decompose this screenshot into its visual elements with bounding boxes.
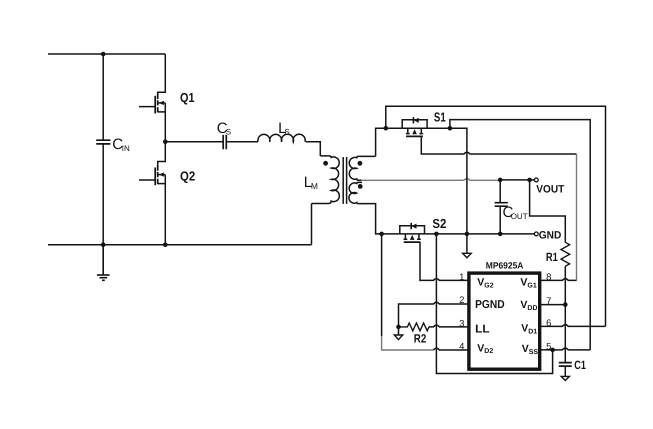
wire S1 gate riser to VG1 (gray) [576,154,578,280]
terminal GND [534,232,538,236]
wire S2 source to VSS [436,234,552,374]
wire R1 to VDD and C1 [564,266,566,362]
label LS [278,120,290,137]
capacitor CIN [96,54,110,245]
node S1 source junction [448,126,453,131]
wire top input rail [48,53,165,55]
inductor LM transformer primary winding [312,156,340,204]
wire primary bottom return [311,204,313,245]
wire ground rail through S2 [382,233,535,235]
transistor S2 [400,223,425,242]
node VDD pin 7 junction [563,302,568,307]
pin label VDD [520,299,537,312]
pin label VD1 [521,323,537,336]
node half-bridge midpoint [163,140,168,145]
terminal VOUT [534,178,538,182]
label COUT [503,204,528,221]
node top rail CIN junction [101,52,106,57]
svg-text:VOUT: VOUT [536,183,564,195]
svg-text:V: V [521,323,528,335]
svg-text:OUT: OUT [511,212,528,221]
svg-text:Q2: Q2 [180,169,195,184]
label LM [304,174,318,191]
transistor Q1 [139,54,165,142]
wire pin 6 VD1 stub [541,325,606,327]
svg-text:S2: S2 [432,216,446,231]
node S1 drain junction [384,126,389,131]
node S2 source junction [434,232,439,237]
wire pin 2 PGND to R2 node [399,302,469,327]
label CIN [112,136,130,153]
svg-text:C1: C1 [574,358,586,372]
ground secondary [463,253,472,257]
pin label VG2 [477,277,493,290]
node secondary lower polarity dot [358,184,363,189]
label CS [217,120,231,137]
node COUT top junction [498,178,503,183]
transformer secondary winding upper half [349,156,375,180]
node secondary top polarity dot [358,161,363,166]
wire S1 source to secondary ground [450,128,467,253]
svg-text:5: 5 [546,341,551,352]
svg-text:R2: R2 [414,332,427,346]
wire pin 8 VG1 stub [541,279,577,281]
svg-text:D1: D1 [528,328,537,335]
svg-text:V: V [520,277,527,289]
svg-text:LL: LL [475,323,490,335]
svg-text:S1: S1 [434,109,446,124]
wire pin 7 VDD stub [541,304,565,306]
wire S2 drain sense lower to pin 4 (gray) [382,336,434,350]
transformer T1 core [343,157,346,204]
svg-text:1: 1 [459,272,464,283]
wire bottom input rail [48,244,312,246]
svg-text:R1: R1 [546,250,558,264]
svg-text:V: V [520,299,527,311]
svg-text:PGND: PGND [475,299,505,311]
svg-text:Q1: Q1 [180,90,195,105]
svg-text:7: 7 [546,296,551,307]
svg-text:V: V [477,342,484,354]
transistor S1 [402,117,450,136]
svg-text:IN: IN [122,144,130,153]
resistor R2 [399,323,430,331]
node VSS pin 5 junction [550,348,555,353]
wire pin 4 hop to box [433,348,468,350]
node R2 PGND junction [396,325,401,330]
wire CS to LS [226,141,258,143]
wire S2 gate to pin 1 VG2 [420,242,468,280]
capacitor CS [223,135,226,149]
wire secondary top lead [376,128,403,156]
transformer secondary winding lower half [349,182,382,234]
wire pin 5 VSS stub [541,348,590,350]
svg-text:SS: SS [529,349,539,356]
svg-text:S: S [284,128,289,137]
transistor Q2 [139,142,165,245]
ground C1 [561,376,569,380]
inductor LS [258,134,305,142]
ground input rail earth [97,245,110,281]
wire LS to transformer primary [306,142,320,156]
node VOUT R1 junction [527,178,532,183]
svg-text:S: S [226,128,231,137]
capacitor COUT [495,180,508,234]
node COUT bottom junction [498,232,503,237]
svg-text:MP6925A: MP6925A [486,261,524,271]
wire VOUT to R1 [530,180,566,242]
svg-text:2: 2 [459,295,464,306]
svg-text:6: 6 [546,318,551,329]
pin label VD2 [477,342,493,355]
pin label VG1 [520,277,536,290]
svg-text:D2: D2 [484,348,493,355]
wire center tap to COUT node (gray) [361,179,500,181]
node S2 drain junction [379,232,384,237]
wire S1 drain sense to VD1 [386,106,606,326]
node primary polarity dot [323,161,328,166]
svg-text:V: V [522,343,529,355]
svg-text:V: V [477,277,484,289]
wire S1 source to VSS riser [450,120,590,350]
svg-text:GND: GND [539,230,562,242]
ground R2 [394,327,402,340]
node bottom rail CIN junction [101,242,106,247]
svg-text:G1: G1 [527,282,536,289]
pin label VSS [522,343,539,356]
wire S2 drain sense upper (black) [381,234,383,336]
svg-text:G2: G2 [484,282,493,289]
node Q2 source bottom rail [163,242,168,247]
svg-text:DD: DD [527,305,537,312]
resistor R1 [561,242,570,266]
IC U1 MP6925A body [469,273,540,369]
svg-text:4: 4 [459,342,464,353]
wire pin 3 LL lead [429,325,468,327]
node ground rail junction [465,232,470,237]
svg-text:M: M [311,181,318,191]
svg-text:3: 3 [459,318,464,329]
wire S1 gate lead [421,136,576,154]
wire midpoint to CS [165,141,223,143]
wire center tap to VOUT terminal [500,179,534,181]
svg-text:8: 8 [546,272,551,283]
capacitor C1 [559,363,572,377]
